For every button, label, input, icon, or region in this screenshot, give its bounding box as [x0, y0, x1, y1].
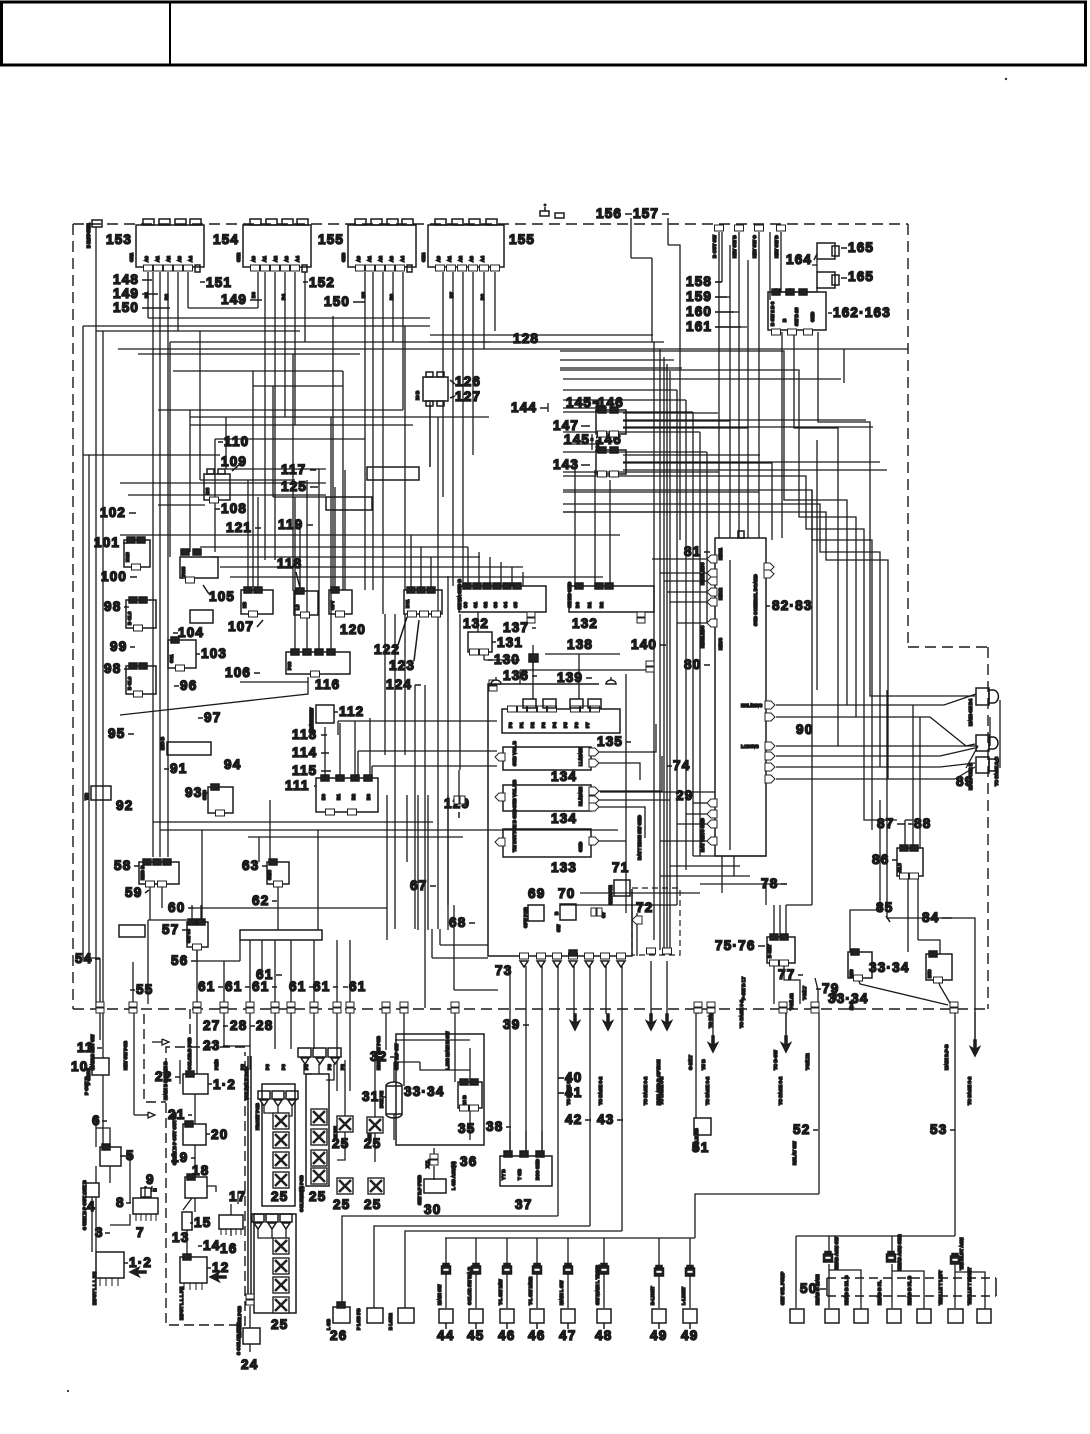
wire: [563, 431, 700, 433]
svg-text:KEY SW C: KEY SW C: [752, 235, 757, 258]
wire: [667, 591, 707, 593]
component 126/127: [423, 372, 448, 406]
wire: [623, 427, 748, 429]
wire: [147, 920, 149, 1004]
wire: [344, 470, 346, 590]
wire: [161, 884, 163, 908]
wire: [663, 357, 665, 950]
svg-text:MAIN SW: MAIN SW: [437, 1284, 442, 1305]
wire: [955, 1272, 985, 1309]
wire: [506, 1238, 508, 1308]
svg-text:78: 78: [761, 876, 778, 891]
wire: [410, 535, 412, 590]
wire: [547, 403, 549, 412]
svg-text:OPT: OPT: [330, 600, 335, 610]
block 132 right: [569, 583, 654, 623]
wire: [509, 1131, 511, 1154]
wire: [664, 580, 707, 582]
wire: [223, 1012, 225, 1046]
wire: [690, 370, 856, 717]
IC 109: [204, 469, 230, 503]
wire: [200, 479, 295, 481]
svg-text:KEY3: KEY3: [718, 638, 723, 650]
svg-text:MAIN L SW: MAIN L SW: [559, 1280, 564, 1305]
wire: [167, 272, 169, 857]
svg-text:A3: A3: [177, 256, 182, 262]
wire: [786, 904, 812, 906]
wire: [95, 1166, 97, 1183]
wire: [420, 547, 422, 590]
wire: [966, 746, 978, 768]
wire: [729, 245, 731, 538]
svg-text:B2: B2: [164, 294, 169, 300]
svg-text:105: 105: [209, 589, 235, 604]
svg-text:P1: P1: [519, 722, 524, 728]
svg-text:MAIN B.P-B: MAIN B.P-B: [944, 1044, 949, 1070]
svg-text:B LGB2: B LGB2: [388, 1313, 393, 1330]
wire: [578, 654, 580, 699]
wire: [563, 411, 693, 413]
svg-text:14: 14: [203, 1238, 220, 1253]
wire: [274, 1012, 276, 1049]
wire: [721, 856, 723, 893]
svg-text:P6: P6: [574, 722, 579, 728]
wire: [815, 978, 818, 1004]
svg-text:155: 155: [318, 232, 344, 247]
svg-text:104: 104: [178, 625, 204, 640]
svg-text:S.COLOR PCB: S.COLOR PCB: [237, 1305, 242, 1338]
svg-text:45: 45: [467, 1328, 484, 1343]
svg-text:28: 28: [230, 1018, 247, 1033]
svg-text:17: 17: [229, 1189, 246, 1204]
wire: [120, 677, 308, 715]
svg-text:L-LIGHT: L-LIGHT: [681, 1287, 686, 1305]
svg-text:T-B/L12: T-B/L12: [789, 993, 794, 1010]
svg-text:B7: B7: [449, 292, 454, 298]
svg-text:INPUT L L L PE: INPUT L L L PE: [179, 1287, 184, 1320]
svg-text:143: 143: [553, 457, 579, 472]
wire: [519, 670, 521, 684]
wire: [190, 416, 489, 418]
svg-text:132: 132: [572, 616, 598, 631]
wire: [344, 1060, 346, 1116]
block 37: [500, 1151, 552, 1186]
wire: [828, 1264, 830, 1308]
wire: [558, 1092, 564, 1094]
svg-text:151: 151: [206, 275, 232, 290]
svg-text:62: 62: [252, 893, 269, 908]
wire: [610, 677, 612, 684]
wire: [477, 612, 479, 632]
wire mesh: [83, 218, 1000, 1352]
wire: [432, 957, 488, 959]
wire: [404, 614, 406, 755]
wire: [88, 455, 90, 958]
svg-text:HEAD B FL: HEAD B FL: [877, 1280, 882, 1305]
wire: [693, 855, 766, 857]
wire: [563, 399, 686, 401]
wire: [249, 940, 251, 1004]
wire: [686, 813, 707, 815]
svg-text:88: 88: [914, 816, 931, 831]
wire: [239, 940, 241, 961]
svg-text:97: 97: [204, 710, 221, 725]
wire: [563, 491, 759, 493]
svg-text:38: 38: [486, 1119, 503, 1134]
svg-text:A2: A2: [458, 256, 463, 262]
svg-text:SUB VOL B: SUB VOL B: [512, 740, 517, 766]
svg-text:13: 13: [172, 1230, 189, 1245]
svg-text:6: 6: [92, 1113, 101, 1128]
svg-text:53: 53: [930, 1122, 947, 1137]
wire: [563, 504, 880, 767]
wire: [738, 232, 740, 538]
wire: [668, 245, 680, 540]
wire: [99, 1012, 101, 1040]
wire: [541, 1131, 543, 1154]
wire: [196, 947, 198, 961]
svg-text:TU B: TU B: [701, 1059, 706, 1070]
wire: [385, 1012, 387, 1050]
svg-text:A1: A1: [447, 256, 452, 262]
wire: [729, 560, 731, 850]
wire: [532, 662, 534, 672]
svg-text:75·76: 75·76: [715, 938, 756, 953]
wire: [919, 717, 921, 848]
svg-text:150: 150: [324, 294, 350, 309]
wire: [453, 905, 455, 990]
wire: [189, 410, 191, 552]
wire: [598, 807, 645, 838]
svg-text:B59: B59: [927, 969, 932, 978]
svg-text:136: 136: [503, 668, 529, 683]
connector 155 b: [428, 219, 504, 271]
svg-text:80: 80: [684, 657, 701, 672]
wire: [427, 795, 429, 930]
wire: [96, 330, 300, 332]
svg-text:K8: K8: [242, 602, 247, 608]
svg-text:96: 96: [180, 678, 197, 693]
svg-text:10: 10: [71, 1059, 88, 1074]
wire: [207, 1186, 216, 1192]
wire: [252, 371, 254, 587]
wire: [257, 497, 259, 587]
svg-text:25: 25: [333, 1197, 350, 1212]
wire: [676, 390, 678, 905]
wire: [692, 412, 694, 856]
svg-text:122: 122: [374, 642, 400, 657]
svg-text:44: 44: [437, 1328, 454, 1343]
wire: [447, 576, 449, 905]
svg-text:HEAD B FL B: HEAD B FL B: [907, 1275, 912, 1305]
wire: [160, 829, 618, 831]
svg-text:93: 93: [185, 785, 202, 800]
IC 107: [241, 587, 273, 617]
svg-text:B3: B3: [366, 794, 371, 800]
svg-text:TO PAGE 9-2: TO PAGE 9-2: [739, 999, 744, 1028]
svg-text:86: 86: [872, 852, 889, 867]
svg-text:123: 123: [389, 658, 415, 673]
26: [333, 1307, 350, 1323]
wire: [294, 272, 296, 425]
wire: [938, 980, 950, 1003]
wire: [194, 907, 387, 909]
wire: [594, 470, 596, 586]
wire: [337, 1132, 345, 1160]
wire: [625, 674, 627, 913]
svg-text:1·2: 1·2: [213, 1077, 236, 1092]
wire: [372, 272, 374, 590]
wire: [500, 348, 908, 350]
wire: [695, 1194, 819, 1238]
wire: [563, 476, 864, 746]
wire: [989, 717, 991, 746]
svg-text:P8: P8: [340, 1064, 345, 1070]
svg-text:46: 46: [498, 1328, 515, 1343]
wire: [623, 461, 880, 463]
wire: [196, 960, 240, 962]
svg-text:107: 107: [228, 619, 254, 634]
svg-text:134: 134: [551, 811, 577, 826]
svg-text:99: 99: [110, 639, 127, 654]
svg-text:P5: P5: [563, 722, 568, 728]
wire: [306, 480, 308, 652]
wire: [652, 558, 707, 560]
svg-text:B0: B0: [321, 794, 326, 800]
wire: [284, 272, 286, 417]
wire: [290, 1012, 292, 1049]
wire: [699, 432, 701, 856]
wire: [120, 1156, 130, 1203]
svg-text:108: 108: [221, 501, 247, 516]
svg-text:LCD5V8: LCD5V8: [741, 744, 759, 749]
wire: [132, 962, 134, 1004]
wire: [120, 534, 620, 536]
svg-text:B5: B5: [361, 292, 366, 298]
svg-text:25: 25: [309, 1189, 326, 1204]
svg-text:118: 118: [277, 556, 302, 571]
svg-text:63: 63: [242, 858, 259, 873]
wire: [95, 227, 97, 1008]
wire: [442, 272, 444, 377]
wire: [623, 420, 730, 422]
svg-text:GND: GND: [578, 841, 583, 852]
svg-text:D0: D0: [575, 602, 580, 608]
wire: [700, 883, 787, 885]
svg-text:C5: C5: [513, 602, 518, 608]
svg-text:HEAD ASM SW2: HEAD ASM SW2: [897, 1234, 902, 1270]
svg-text:101: 101: [94, 535, 120, 550]
wire: [747, 260, 749, 538]
svg-text:KEY2: KEY2: [718, 588, 723, 600]
wire: [892, 1271, 924, 1309]
wire: [598, 724, 656, 752]
svg-text:RELAY SW: RELAY SW: [792, 1141, 797, 1165]
svg-text:REG B: REG B: [140, 865, 145, 880]
column pcb long line: [247, 1056, 249, 1294]
wire: [153, 821, 433, 823]
wire: [775, 288, 777, 292]
wire: [563, 443, 596, 445]
wire: [954, 1012, 956, 1236]
wire: [573, 966, 575, 1014]
svg-text:40: 40: [565, 1070, 582, 1085]
wire: [394, 1061, 420, 1063]
svg-text:25: 25: [271, 1317, 288, 1332]
svg-text:SET B.P PWB: SET B.P PWB: [417, 1175, 422, 1205]
wire: [478, 552, 480, 586]
svg-text:SW: SW: [556, 924, 561, 932]
wire: [358, 750, 497, 752]
svg-text:A2: A2: [166, 256, 171, 262]
svg-text:A3: A3: [284, 256, 289, 262]
wire: [83, 454, 220, 456]
wire: [580, 892, 700, 894]
wire: [598, 763, 640, 780]
wire: [148, 1112, 155, 1118]
wire: [500, 562, 502, 586]
long bar 61: [240, 930, 322, 940]
svg-text:9: 9: [146, 1172, 155, 1187]
wire: [560, 369, 690, 371]
wire: [83, 957, 100, 959]
wire: [83, 325, 430, 327]
svg-text:113: 113: [292, 727, 317, 742]
wire: [560, 351, 847, 705]
wire: [82, 326, 84, 958]
wire: [659, 349, 661, 950]
wire: [816, 440, 818, 690]
wire: [91, 1197, 93, 1252]
svg-text:A0: A0: [251, 256, 256, 262]
svg-text:D2: D2: [599, 602, 604, 608]
wire: [454, 989, 498, 991]
IC 131: [468, 632, 492, 655]
svg-text:94: 94: [224, 757, 241, 772]
svg-text:74: 74: [673, 758, 690, 773]
svg-text:A4: A4: [295, 256, 300, 262]
svg-text:4: 4: [87, 1199, 96, 1214]
svg-text:73: 73: [495, 963, 512, 978]
wire: [258, 1228, 273, 1238]
wire: [318, 469, 320, 652]
svg-text:103: 103: [201, 646, 227, 661]
svg-text:TO PAGE 8-2: TO PAGE 8-2: [643, 1076, 648, 1105]
wire: [685, 400, 687, 870]
svg-text:130: 130: [494, 652, 520, 667]
wire: [162, 1039, 169, 1045]
wire: [918, 940, 940, 954]
stray dot: [1005, 78, 1007, 80]
wire: [274, 940, 276, 1004]
wire: [99, 958, 101, 1004]
svg-text:C1: C1: [473, 602, 478, 608]
svg-text:7805: 7805: [181, 566, 186, 577]
wire: [223, 961, 225, 1004]
IC 111: [316, 775, 378, 815]
svg-text:119: 119: [278, 517, 303, 532]
svg-text:91: 91: [170, 761, 187, 776]
wire: [375, 1178, 377, 1194]
wire: [230, 1229, 232, 1236]
wire: [560, 904, 677, 906]
wire: [785, 905, 787, 937]
wire: [264, 1107, 273, 1113]
svg-text:135: 135: [597, 734, 623, 749]
top-left edge connector: [92, 220, 102, 227]
svg-text:HEAD B BL B: HEAD B BL B: [844, 1275, 849, 1305]
wire: [431, 929, 433, 958]
wire: [660, 572, 707, 574]
svg-text:A2: A2: [273, 256, 278, 262]
wire: [511, 567, 513, 586]
svg-text:FRONT PCB: FRONT PCB: [255, 1103, 260, 1130]
wire: [706, 452, 708, 623]
svg-text:SW B 28: SW B 28: [794, 307, 799, 326]
svg-text:61: 61: [225, 979, 242, 994]
svg-text:A4: A4: [400, 256, 405, 262]
IC 101: [124, 537, 150, 570]
wire: [304, 272, 306, 342]
svg-text:L.IGB MAIN B SW: L.IGB MAIN B SW: [445, 1031, 450, 1070]
1·2 lower block: [96, 1252, 124, 1286]
svg-text:B CL8: B CL8: [127, 611, 132, 625]
wire: [264, 272, 266, 560]
svg-text:43: 43: [597, 1112, 614, 1127]
wire: [811, 490, 813, 905]
bar 134 a: [495, 747, 599, 770]
svg-text:131: 131: [497, 635, 523, 650]
wire: [589, 966, 591, 1226]
wire: [776, 745, 966, 747]
wire: [780, 232, 782, 292]
wire: [404, 326, 406, 590]
svg-text:29: 29: [676, 788, 693, 803]
svg-text:12: 12: [212, 1260, 229, 1275]
svg-text:50: 50: [800, 1281, 817, 1296]
wire: [904, 820, 906, 848]
wire: [369, 718, 371, 778]
wire: [623, 454, 760, 456]
wire: [563, 378, 841, 380]
wire: [430, 341, 664, 343]
svg-text:B-LIGHT: B-LIGHT: [650, 1286, 655, 1305]
main board 73 outline: [488, 684, 632, 956]
wire: [196, 947, 198, 1004]
wire: [609, 480, 611, 586]
wire: [636, 913, 638, 956]
svg-text:25: 25: [364, 1197, 381, 1212]
wire: [445, 1237, 695, 1239]
component 164 / 165: [817, 243, 835, 259]
wire: [525, 1131, 527, 1154]
30: [424, 1179, 446, 1193]
wire: [109, 1166, 111, 1183]
wire: [829, 1270, 861, 1309]
wire: [715, 296, 730, 298]
wire: [159, 272, 161, 857]
svg-text:26: 26: [330, 1328, 347, 1343]
inner dashed box bottom-left (sub board): [144, 1009, 245, 1325]
wire: [600, 791, 715, 793]
stubs on top dashed line right: [715, 225, 724, 231]
svg-text:MAIN-CN B4: MAIN-CN B4: [968, 699, 973, 726]
svg-text:A4: A4: [188, 256, 193, 262]
svg-text:HEAD ASM SW: HEAD ASM SW: [834, 1236, 839, 1270]
wire: [715, 281, 722, 283]
wire: [144, 1186, 146, 1198]
wire: [332, 316, 334, 590]
